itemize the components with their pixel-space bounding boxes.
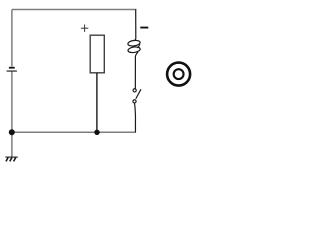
inductor L1 lead top with entry hook <box>134 9 136 40</box>
inductor L1 riser between loops <box>137 44 140 48</box>
ground hatch 3 <box>14 158 16 162</box>
ground hatch 2 <box>10 158 12 162</box>
plus label <box>81 25 88 32</box>
minus label <box>140 27 148 29</box>
switch S1 bottom lead <box>134 103 137 132</box>
inductor L1 loop 1 <box>128 40 141 47</box>
wire top horizontal <box>12 9 136 11</box>
ground hatch 1 <box>6 158 8 162</box>
junction node right <box>94 130 99 135</box>
ground bar <box>5 156 17 158</box>
junction node left <box>9 129 15 135</box>
inductor L1 exit lead to switch <box>135 52 138 89</box>
indicator outer circle <box>167 63 190 86</box>
wire left vertical lower (battery to ground) <box>11 72 13 157</box>
switch S1 top contact circle <box>133 89 136 92</box>
resistor box R1 <box>90 35 104 73</box>
indicator inner circle <box>174 69 184 79</box>
wire bottom horizontal <box>12 131 136 133</box>
wire left vertical upper (to battery) <box>11 10 13 67</box>
switch S1 blade <box>136 89 141 99</box>
resistor leg (black lead to bottom wire) <box>96 73 98 132</box>
switch S1 bottom contact circle <box>133 100 136 103</box>
battery B1 positive plate (long thin bar) <box>7 71 17 72</box>
battery B1 negative plate (short thick bar) <box>9 67 15 69</box>
inductor L1 loop 2 <box>128 46 141 53</box>
